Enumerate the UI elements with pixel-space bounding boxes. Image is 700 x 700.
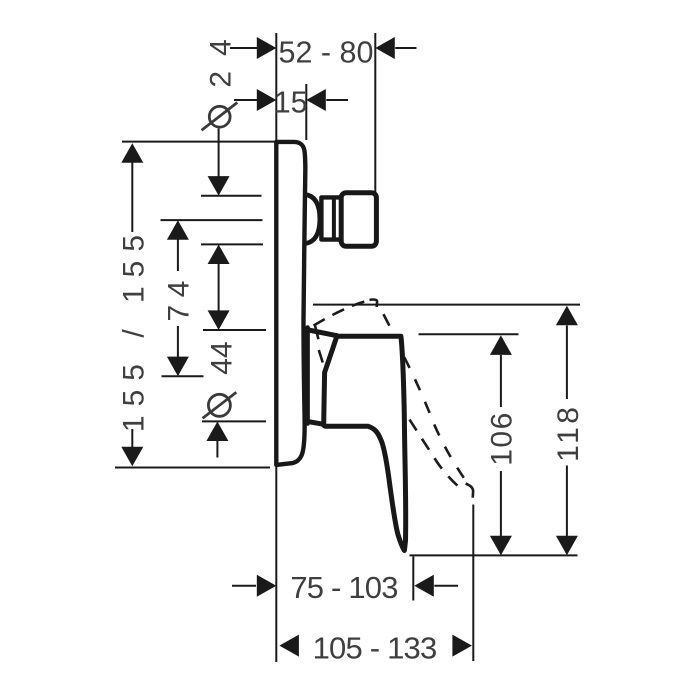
svg-text:74: 74	[163, 273, 196, 321]
svg-text:118: 118	[552, 404, 585, 462]
svg-text:106: 106	[486, 411, 519, 466]
svg-text:15: 15	[274, 86, 308, 120]
svg-text:44: 44	[205, 341, 238, 374]
svg-text:52 - 80: 52 - 80	[279, 35, 374, 69]
svg-text:105 - 133: 105 - 133	[313, 631, 437, 666]
svg-text:155 / 155: 155 / 155	[117, 226, 150, 432]
svg-text:75 - 103: 75 - 103	[290, 570, 397, 605]
svg-text:24: 24	[205, 24, 238, 87]
